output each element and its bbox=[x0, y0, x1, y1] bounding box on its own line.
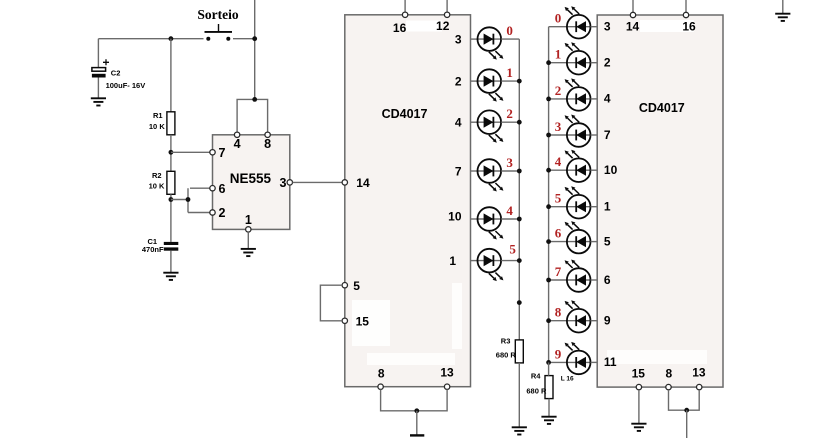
junction node V+ / switch bbox=[252, 36, 257, 41]
svg-text:15: 15 bbox=[632, 367, 646, 381]
svg-text:Sorteio: Sorteio bbox=[197, 7, 238, 22]
svg-text:1: 1 bbox=[506, 65, 513, 80]
LED D11 (digit 4) bbox=[565, 150, 591, 182]
junction right LED bus bbox=[546, 97, 551, 102]
wire U3 bracket to bottom edge bbox=[686, 410, 688, 438]
svg-text:15: 15 bbox=[356, 315, 370, 329]
wire LED D10 to U3 pin 7 bbox=[591, 134, 598, 136]
LED D13 (digit 6) bbox=[565, 221, 591, 253]
wire junction to pins 6-2 bracket bbox=[171, 199, 188, 201]
junction right LED bus bbox=[546, 168, 551, 173]
svg-text:4: 4 bbox=[234, 137, 241, 151]
svg-text:14: 14 bbox=[626, 19, 640, 33]
svg-text:3: 3 bbox=[455, 32, 462, 46]
svg-text:3: 3 bbox=[604, 20, 611, 34]
svg-text:680 R: 680 R bbox=[496, 351, 517, 360]
junction right LED bus bbox=[546, 239, 551, 244]
wire cathode bus to LED D8 bbox=[549, 62, 567, 64]
wire LED D11 to U3 pin 10 bbox=[591, 169, 598, 171]
svg-text:8: 8 bbox=[378, 367, 385, 381]
LED D15 (digit 8) bbox=[565, 300, 591, 332]
junction LED bus bbox=[517, 79, 522, 84]
svg-text:2: 2 bbox=[455, 74, 462, 88]
junction right LED bus bbox=[546, 204, 551, 209]
resistor R4 bbox=[545, 376, 553, 399]
ground under NE555 pin 1 bbox=[241, 249, 256, 256]
wire LED D5 to cathode bus bbox=[501, 218, 519, 220]
svg-text:3: 3 bbox=[555, 119, 562, 134]
LED D6 (digit 5) bbox=[478, 249, 504, 281]
svg-text:10 K: 10 K bbox=[149, 181, 165, 190]
LED D4 (digit 3) bbox=[478, 159, 504, 191]
svg-text:9: 9 bbox=[555, 346, 562, 361]
U2 pin 8 terminal bbox=[378, 384, 383, 389]
svg-text:9: 9 bbox=[604, 314, 611, 328]
wire U2 pin 1 to LED D6 bbox=[471, 260, 478, 262]
ground under U2 pins 8-13 (clipped) bbox=[410, 434, 424, 436]
wire R2 to C1 bbox=[170, 194, 172, 242]
U3 pin 8 terminal bbox=[666, 384, 671, 389]
wire U2 pin 12 stub to top bbox=[446, 0, 448, 12]
junction LED bus bbox=[517, 169, 522, 174]
wire C1 to ground bbox=[170, 251, 172, 273]
LED D14 (digit 7) bbox=[565, 260, 591, 292]
wire cathode bus to LED D9 bbox=[549, 98, 567, 100]
wire C2 to ground bbox=[97, 78, 99, 99]
NE555 pin 7 terminal bbox=[210, 150, 215, 155]
junction on pins 6-2 bracket bbox=[186, 197, 191, 202]
junction right LED bus bbox=[546, 360, 551, 365]
svg-text:CD4017: CD4017 bbox=[382, 107, 428, 121]
NE555 pin 8 terminal bbox=[265, 132, 270, 137]
NE555 pin 3 terminal bbox=[287, 180, 292, 185]
LED D8 (digit 1) bbox=[565, 42, 591, 74]
wire LED D8 to U3 pin 2 bbox=[591, 62, 598, 64]
wire LED D3 to cathode bus bbox=[501, 121, 519, 123]
svg-text:1: 1 bbox=[604, 200, 611, 214]
svg-text:680 R: 680 R bbox=[526, 386, 547, 395]
wire cathode bus to LED D14 bbox=[549, 279, 567, 281]
wire LED D4 to cathode bus bbox=[501, 170, 519, 172]
svg-text:100uF- 16V: 100uF- 16V bbox=[106, 81, 146, 90]
LED D10 (digit 3) bbox=[565, 115, 591, 147]
svg-text:1: 1 bbox=[555, 47, 562, 62]
wire cathode bus to LED D16 bbox=[549, 361, 567, 363]
svg-text:7: 7 bbox=[604, 128, 611, 142]
svg-text:R2: R2 bbox=[152, 171, 162, 180]
svg-text:8: 8 bbox=[264, 137, 271, 151]
IC U2 CD4017 body bbox=[345, 15, 471, 387]
U3 pin 15 terminal bbox=[636, 384, 641, 389]
junction on bus (solder dot) bbox=[517, 300, 522, 305]
wire LED D1 to cathode bus bbox=[501, 38, 519, 40]
svg-text:10: 10 bbox=[604, 163, 618, 177]
svg-text:0: 0 bbox=[555, 11, 562, 26]
svg-text:10 K: 10 K bbox=[149, 122, 165, 131]
svg-text:12: 12 bbox=[436, 19, 450, 33]
LED D12 (digit 5) bbox=[565, 186, 591, 218]
svg-text:L 16: L 16 bbox=[561, 375, 574, 382]
wire V+ rail from C2 to switch S1 bbox=[98, 38, 203, 40]
wire NE555 pin 1 to ground bbox=[247, 232, 249, 249]
LED D5 (digit 4) bbox=[478, 207, 504, 239]
wire U3 pin 14 stub to top bbox=[632, 0, 634, 12]
junction LED bus bbox=[517, 258, 522, 263]
wire LED D12 to U3 pin 1 bbox=[591, 206, 598, 208]
wire bracket U2 pins 8-13 to ground bbox=[381, 389, 448, 410]
ground under R4 bbox=[541, 417, 556, 424]
wire V+ vertical drop to NE555 supply bbox=[254, 0, 256, 99]
LED D3 (digit 2) bbox=[478, 110, 504, 142]
capacitor C2 (electrolytic) bbox=[92, 59, 109, 77]
svg-text:R1: R1 bbox=[153, 111, 163, 120]
capacitor C1 bbox=[164, 242, 179, 251]
wire U3 pin 15 to ground bbox=[638, 390, 640, 424]
wire LED D6 to cathode bus bbox=[501, 260, 519, 262]
NE555 pin 6 terminal bbox=[210, 186, 215, 191]
wire bracket U3 pins 8-13 bbox=[669, 390, 700, 410]
wire NE555 pin 3 to U2 pin 14 bbox=[293, 181, 343, 183]
wire cathode bus to LED D13 bbox=[549, 241, 567, 243]
resistor R3 bbox=[515, 340, 523, 363]
wire LED D14 to U3 pin 6 bbox=[591, 279, 598, 281]
wire LED D2 to cathode bus bbox=[501, 80, 519, 82]
svg-text:5: 5 bbox=[509, 242, 516, 257]
wire LED D13 to U3 pin 5 bbox=[591, 241, 598, 243]
ground under C1 bbox=[163, 273, 178, 280]
NE555 pin 2 terminal bbox=[210, 210, 215, 215]
U2 pin 16 terminal bbox=[402, 12, 407, 17]
junction LED bus bbox=[517, 120, 522, 125]
svg-text:6: 6 bbox=[604, 273, 611, 287]
svg-text:7: 7 bbox=[555, 264, 562, 279]
wire U2 pin 3 to LED D1 bbox=[471, 38, 478, 40]
svg-text:R3: R3 bbox=[501, 336, 511, 345]
wire bracket NE555 pins 4-8 to V+ bbox=[237, 99, 268, 132]
ground under R3 bbox=[512, 427, 527, 434]
wire junction to NE555 pin 7 bbox=[171, 151, 210, 153]
U2 pin 12 terminal bbox=[444, 12, 449, 17]
junction V+ rail / R1 bbox=[169, 36, 174, 41]
wire bus to R4 bbox=[548, 362, 550, 375]
svg-text:4: 4 bbox=[506, 203, 513, 218]
LED D2 (digit 1) bbox=[478, 69, 504, 101]
svg-text:0: 0 bbox=[506, 23, 513, 38]
resistor R1 bbox=[167, 112, 175, 135]
U3 pin 14 terminal bbox=[630, 12, 635, 17]
junction right LED bus bbox=[546, 278, 551, 283]
NE555 pin 4 terminal bbox=[234, 132, 239, 137]
svg-text:8: 8 bbox=[666, 367, 673, 381]
svg-text:7: 7 bbox=[455, 164, 462, 178]
svg-text:16: 16 bbox=[393, 21, 407, 35]
svg-text:R4: R4 bbox=[531, 372, 541, 381]
svg-text:470nF: 470nF bbox=[142, 245, 164, 254]
wire V+ rail to R1 bbox=[170, 39, 172, 112]
svg-text:13: 13 bbox=[692, 366, 706, 380]
wire V+ to C2 positive plate bbox=[97, 39, 99, 68]
wire left LED cathode bus bbox=[518, 39, 520, 340]
ground under C2 bbox=[91, 98, 106, 105]
NE555 pin 1 terminal bbox=[246, 227, 251, 232]
U2 pin 14 terminal bbox=[342, 180, 347, 185]
junction U3 8-13 bracket bbox=[684, 408, 689, 413]
svg-text:11: 11 bbox=[604, 355, 617, 369]
wire right LED cathode bus bbox=[548, 27, 550, 363]
wire R1 to R2 bbox=[170, 135, 172, 172]
U2 pin 13 terminal bbox=[444, 384, 449, 389]
junction U2 8-13 bracket / ground bbox=[414, 408, 419, 413]
wire LED D15 to U3 pin 9 bbox=[591, 320, 598, 322]
svg-text:1: 1 bbox=[449, 254, 456, 268]
wire R4 to ground bbox=[548, 399, 550, 417]
svg-text:8: 8 bbox=[555, 305, 562, 320]
wire cathode bus to LED D11 bbox=[549, 169, 567, 171]
svg-text:13: 13 bbox=[440, 366, 454, 380]
wire U2 pin 2 to LED D2 bbox=[471, 80, 478, 82]
wire cathode bus to LED D15 bbox=[549, 320, 567, 322]
svg-text:7: 7 bbox=[219, 146, 226, 160]
svg-text:CD4017: CD4017 bbox=[639, 101, 685, 115]
wire bracket NE555 pins 6-2 bbox=[188, 188, 210, 212]
wire LED D16 to U3 pin 11 bbox=[591, 361, 598, 363]
wire stub to top-right ground bbox=[782, 0, 784, 14]
wire U2 pin 16 stub to top bbox=[404, 0, 406, 12]
LED D9 (digit 2) bbox=[565, 78, 591, 110]
wire cathode bus to LED D12 bbox=[549, 206, 567, 208]
U3 pin 16 terminal bbox=[683, 12, 688, 17]
LED D7 (digit 0) bbox=[565, 6, 591, 38]
wire R3 to ground bbox=[518, 363, 520, 427]
svg-text:5: 5 bbox=[555, 191, 562, 206]
svg-text:NE555: NE555 bbox=[230, 171, 272, 186]
svg-text:1: 1 bbox=[245, 213, 252, 227]
LED D1 (digit 0) bbox=[478, 27, 504, 59]
wire cathode bus to LED D10 bbox=[549, 134, 567, 136]
junction right LED bus bbox=[546, 318, 551, 323]
svg-text:5: 5 bbox=[604, 234, 611, 248]
svg-text:4: 4 bbox=[555, 154, 562, 169]
svg-text:4: 4 bbox=[604, 92, 611, 106]
wire LED D9 to U3 pin 4 bbox=[591, 98, 598, 100]
ground under U3 pin 15 bbox=[631, 424, 646, 431]
U3 pin 13 terminal bbox=[697, 384, 702, 389]
IC U3 CD4017 body bbox=[597, 15, 723, 387]
svg-text:14: 14 bbox=[356, 176, 370, 190]
junction right LED bus bbox=[546, 60, 551, 65]
svg-text:3: 3 bbox=[506, 155, 513, 170]
svg-text:4: 4 bbox=[455, 116, 462, 130]
op-amp/timer U1 NE555 body bbox=[213, 135, 290, 230]
svg-text:2: 2 bbox=[506, 106, 513, 121]
wire U3 pin 16 stub to top bbox=[685, 0, 687, 12]
wire bracket U2 pins 5-15 bbox=[320, 285, 342, 321]
LED D16 (digit 9) bbox=[565, 342, 591, 374]
junction R2-C1 / NE555 pins 6-2 bbox=[169, 197, 174, 202]
resistor R2 bbox=[167, 171, 175, 194]
junction V+ on pins 4-8 bracket bbox=[252, 97, 257, 102]
wire cathode bus to LED D7 bbox=[549, 26, 567, 28]
U2 pin 5 terminal bbox=[342, 283, 347, 288]
svg-text:16: 16 bbox=[682, 19, 696, 33]
junction right LED bus bbox=[546, 133, 551, 138]
svg-text:2: 2 bbox=[219, 206, 226, 220]
wire U2 pin 10 to LED D5 bbox=[471, 218, 478, 220]
wire switch S1 to node V+ bbox=[233, 38, 255, 40]
wire U2 pin 4 to LED D3 bbox=[471, 121, 478, 123]
push-button S1 Sorteio bbox=[205, 24, 233, 41]
svg-text:2: 2 bbox=[555, 83, 562, 98]
svg-text:3: 3 bbox=[280, 176, 287, 190]
junction LED bus bbox=[517, 217, 522, 222]
wire U2 pin 7 to LED D4 bbox=[471, 170, 478, 172]
wire LED D7 to U3 pin 3 bbox=[591, 26, 598, 28]
svg-text:6: 6 bbox=[219, 182, 226, 196]
svg-text:C2: C2 bbox=[111, 69, 121, 78]
junction R1-R2 / NE555 pin 7 bbox=[169, 150, 174, 155]
wire U2 bracket to ground bar bbox=[416, 411, 418, 435]
ground top-right bbox=[775, 14, 790, 21]
svg-text:6: 6 bbox=[555, 226, 562, 241]
svg-text:10: 10 bbox=[448, 210, 462, 224]
U2 pin 15 terminal bbox=[342, 318, 347, 323]
svg-text:5: 5 bbox=[353, 279, 360, 293]
svg-text:2: 2 bbox=[604, 56, 611, 70]
